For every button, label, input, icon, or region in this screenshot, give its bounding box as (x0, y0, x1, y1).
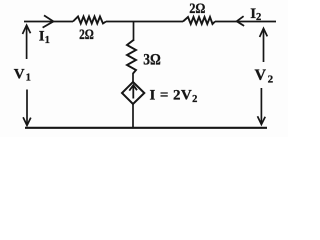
wire top-middle segment (106, 21, 183, 23)
wire resistor-to-source (132, 73, 134, 83)
wire top-right segment (215, 21, 276, 23)
voltage arrow V1 down (23, 90, 31, 126)
voltage arrow V1 up (23, 25, 31, 59)
current arrow I2 (237, 16, 244, 26)
voltage arrow V2 down (258, 88, 266, 124)
node middle junction / wire middle vertical upper (133, 22, 135, 42)
svg-text:I = 2V2: I = 2V2 (150, 87, 198, 105)
resistor R1 2Ω (73, 17, 106, 24)
svg-text:2Ω: 2Ω (189, 1, 205, 17)
wire top-left segment (24, 21, 73, 23)
resistor R2 2Ω (183, 17, 215, 24)
wire source-to-bottom (132, 104, 134, 128)
voltage arrow V2 up (260, 28, 268, 62)
svg-text:3Ω: 3Ω (143, 51, 161, 68)
dependent current source I=2V2 (diamond) (122, 82, 144, 104)
svg-text:2Ω: 2Ω (79, 27, 94, 43)
current arrow I1 (43, 15, 54, 27)
current source arrow (129, 85, 137, 98)
resistor R3 3Ω (127, 40, 136, 74)
wire bottom rail (25, 127, 267, 129)
